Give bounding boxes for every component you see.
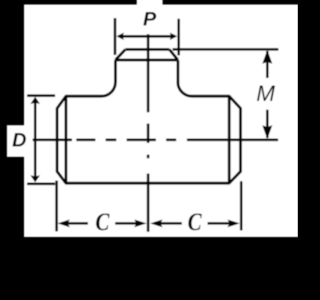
svg-text:M: M [256, 81, 275, 106]
svg-text:D: D [12, 129, 26, 151]
svg-text:C: C [188, 207, 203, 235]
svg-text:P: P [143, 9, 157, 31]
svg-text:C: C [95, 207, 110, 235]
